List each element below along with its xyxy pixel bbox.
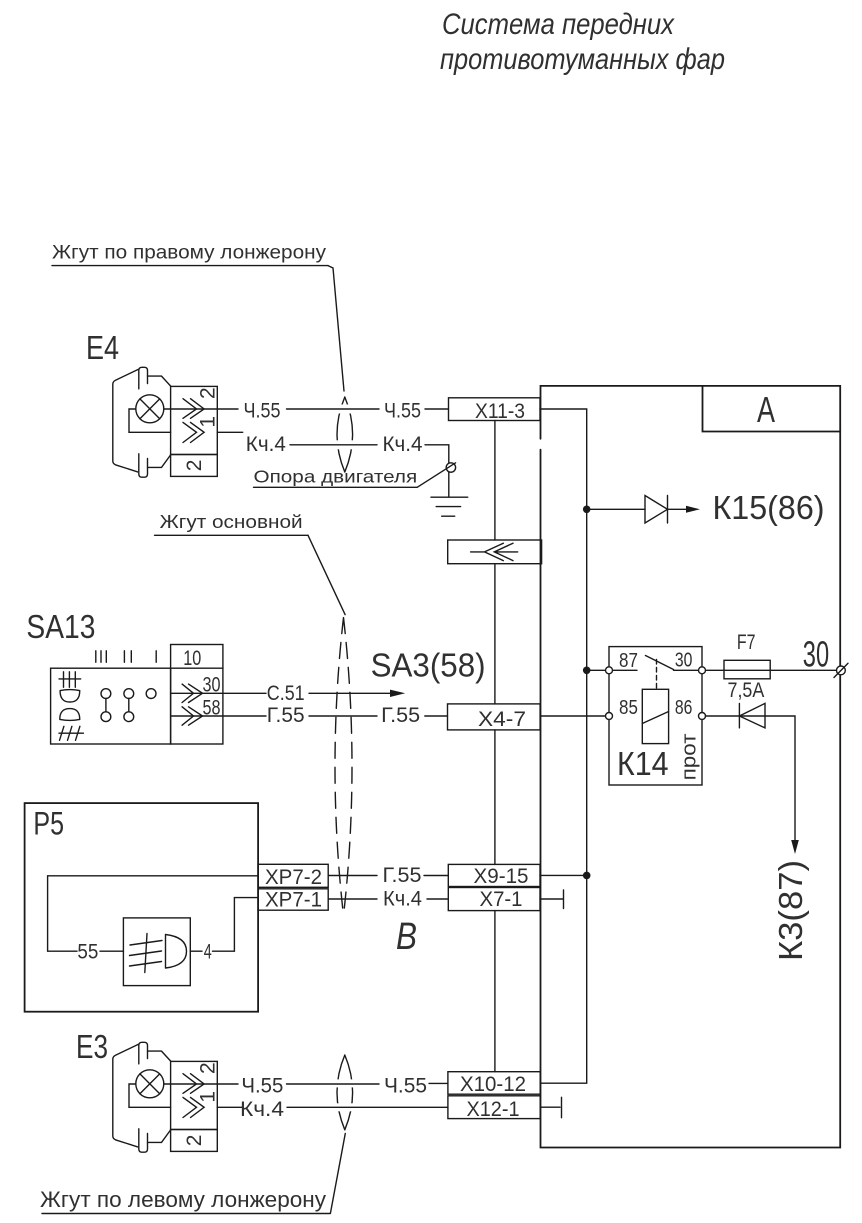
svg-text:2: 2 [183, 460, 206, 472]
wire with arrow to SA3(58) [309, 692, 390, 694]
wire end tick [563, 890, 565, 909]
fog lamp E4 [86, 329, 220, 477]
svg-text:2: 2 [197, 1062, 220, 1074]
SA13 body [51, 668, 171, 744]
fog lamp icon [166, 935, 187, 969]
connector X4-7 [448, 704, 541, 731]
position II [124, 651, 131, 663]
wire K14 pin 86 to K3 [706, 716, 796, 840]
title [440, 8, 725, 76]
junction [583, 872, 591, 880]
wire X9-15 to bus [540, 874, 587, 876]
wire [429, 1082, 448, 1084]
harness label: Жгут по левому лонжерону [40, 1187, 330, 1214]
position I [155, 651, 157, 663]
junction [583, 506, 591, 514]
wire Кч.4 (E3 row) [217, 1106, 242, 1108]
wire pin 4 to XP7-1 [213, 898, 259, 952]
svg-text:1: 1 [197, 416, 220, 428]
switch SA13 [26, 608, 223, 744]
contact circles III [101, 689, 111, 699]
svg-text:85: 85 [619, 697, 638, 719]
svg-text:55: 55 [77, 941, 98, 964]
svg-text:F7: F7 [737, 631, 756, 654]
P5 fog lamp box [123, 918, 190, 986]
wire [100, 950, 123, 952]
svg-text:10: 10 [183, 647, 201, 670]
P5 internal wire to pin 55 [48, 876, 259, 951]
harness sleeve (right longeron) around E4 wires [332, 397, 357, 472]
svg-text:4: 4 [204, 941, 212, 964]
connector ХР7-1 [258, 889, 328, 912]
svg-text:Г.55: Г.55 [383, 864, 422, 887]
svg-text:2: 2 [183, 1135, 206, 1147]
K14 terminals [606, 667, 613, 674]
svg-text:Кч.4: Кч.4 [246, 433, 286, 456]
wire Г.55 [171, 715, 266, 717]
wire [425, 715, 448, 717]
K14 contact [613, 656, 699, 671]
wire [425, 445, 449, 463]
junction [583, 667, 591, 675]
wire [309, 715, 377, 717]
contact circle I [146, 689, 156, 699]
control unit P5 [25, 803, 259, 1012]
svg-text:Х10-12: Х10-12 [460, 1073, 526, 1096]
svg-text:Ч.55: Ч.55 [384, 1074, 427, 1097]
wire [287, 408, 380, 410]
wire Ч.55 bus inside unit A [540, 409, 587, 1083]
svg-text:Х9-15: Х9-15 [474, 865, 529, 888]
wire with arrow [668, 508, 688, 510]
wire С.51 [171, 692, 266, 694]
wire X4-7 to K14 pin 85 [540, 715, 605, 717]
svg-text:Г.55: Г.55 [267, 704, 305, 727]
svg-text:Г.55: Г.55 [381, 704, 420, 727]
svg-text:SА13: SА13 [26, 608, 95, 645]
connector X12-1 [448, 1096, 540, 1121]
svg-text:противотуманных фар: противотуманных фар [440, 43, 725, 76]
svg-text:ХР7-2: ХР7-2 [265, 866, 322, 889]
K14 coil [642, 689, 668, 743]
wire [287, 1106, 448, 1108]
svg-text:С.51: С.51 [267, 682, 305, 705]
unit A (mounting block) [541, 386, 841, 1148]
connector ХР7-2 [258, 864, 328, 889]
node Опора двигателя [254, 463, 456, 488]
svg-text:Х12-1: Х12-1 [467, 1098, 520, 1121]
wire bus to K14 pin 87 [587, 669, 606, 671]
headlamp icon [59, 672, 81, 688]
connector X9-15 [448, 864, 540, 888]
wire [427, 898, 448, 900]
svg-text:К3(87): К3(87) [772, 860, 809, 961]
svg-text:86: 86 [675, 697, 693, 719]
svg-text:Ч.55: Ч.55 [241, 1074, 283, 1097]
wire Кч.4 (P5 row) [328, 898, 377, 900]
fuse F7 [724, 631, 770, 702]
svg-text:87: 87 [619, 650, 638, 672]
wire end tick [561, 1097, 563, 1117]
svg-text:ХР7-1: ХР7-1 [265, 889, 322, 912]
E4 pin chevrons [183, 399, 204, 419]
wire to K15 [587, 508, 645, 510]
harness label: Жгут по правому лонжерону [52, 243, 328, 266]
position III [96, 651, 107, 663]
svg-text:К15(86): К15(86) [713, 489, 825, 526]
svg-text:Жгут по левому лонжерону: Жгут по левому лонжерону [40, 1187, 326, 1212]
connector X7-1 [448, 888, 540, 912]
svg-text:Жгут основной: Жгут основной [160, 512, 303, 532]
svg-text:30: 30 [803, 634, 829, 675]
harness sleeve (left longeron) around E3 wires [332, 1055, 357, 1130]
wire Ч.55 (E4 row) [164, 408, 238, 410]
wire [290, 444, 377, 446]
SA13 connector block [171, 645, 223, 745]
E3 housing [139, 1042, 148, 1064]
inline connector (harness joint) [448, 540, 542, 564]
svg-text:Ч.55: Ч.55 [244, 399, 281, 422]
wire X7-1 stub [540, 898, 563, 900]
svg-text:Кч.4: Кч.4 [240, 1098, 284, 1121]
SA13 pin chevrons [182, 684, 202, 702]
svg-text:Кч.4: Кч.4 [383, 433, 423, 456]
E4 connector block [171, 386, 218, 454]
E3 connector block [171, 1061, 218, 1129]
ground (engine mount) [431, 472, 468, 516]
relay K14 [606, 647, 706, 785]
svg-text:Ч.55: Ч.55 [384, 399, 421, 422]
svg-text:1: 1 [197, 1091, 220, 1103]
main harness sleeve (dashed) [335, 618, 352, 916]
svg-text:30: 30 [675, 650, 693, 672]
terminal 30 (bolt) [834, 663, 848, 677]
svg-text:Х7-1: Х7-1 [480, 888, 523, 911]
svg-text:прот: прот [679, 733, 701, 780]
wire [425, 408, 449, 410]
wire [424, 875, 448, 877]
svg-text:Е4: Е4 [86, 329, 119, 366]
fog lamp icon [60, 709, 80, 721]
svg-text:7,5А: 7,5А [728, 679, 765, 702]
wire K14 pin 30 to terminal 30 [706, 669, 837, 671]
svg-text:Жгут по правому лонжерону: Жгут по правому лонжерону [52, 243, 327, 264]
svg-text:А: А [757, 389, 775, 430]
svg-text:Е3: Е3 [76, 1028, 108, 1065]
contact circles II [124, 689, 134, 699]
svg-text:2: 2 [197, 387, 220, 399]
arrow to К3(87) [791, 840, 799, 854]
E4 lamp terminal wires [129, 409, 171, 432]
harness label: Жгут основной [155, 512, 309, 535]
leader wire to main harness sleeve [308, 535, 345, 614]
diode (to K3 winding) [739, 703, 765, 728]
diode (to K15 coil) [645, 496, 668, 524]
leader wire to right-side harness sleeve [328, 266, 344, 391]
svg-text:В: В [396, 916, 417, 958]
svg-text:SА3(58): SА3(58) [371, 647, 486, 684]
connector X11-3 [449, 398, 541, 423]
wire Г.55 (P5 row) [328, 875, 377, 877]
svg-text:Кч.4: Кч.4 [383, 888, 422, 911]
svg-text:Опора двигателя: Опора двигателя [254, 466, 418, 486]
wire Кч.4 (E4 row) [217, 431, 242, 433]
leader wire to left harness sleeve [330, 1133, 345, 1213]
wire [190, 950, 202, 952]
E4 housing [139, 367, 148, 389]
E3 lamp (circle-X) [136, 1070, 164, 1098]
wire [287, 1083, 380, 1085]
bus wire (vertical, through connectors) [494, 421, 496, 1072]
svg-text:Х11-3: Х11-3 [475, 400, 525, 423]
wire Ч.55 (E3 row) [164, 1083, 238, 1085]
connector X10-12 [448, 1072, 540, 1096]
E3 lamp terminal wires [129, 1084, 171, 1107]
svg-text:Р5: Р5 [33, 806, 64, 842]
svg-text:Система передних: Система передних [442, 8, 675, 41]
svg-text:К14: К14 [617, 745, 669, 782]
unit A label box [703, 386, 841, 432]
wire X12-1 stub [540, 1106, 560, 1108]
E3 pin chevrons [183, 1074, 204, 1094]
svg-text:Х4-7: Х4-7 [478, 708, 526, 731]
E4 lamp (circle-X) [136, 395, 164, 423]
